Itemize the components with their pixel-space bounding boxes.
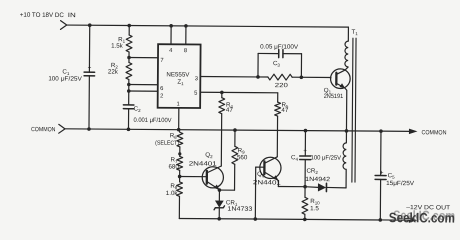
svg-text:3: 3 (195, 76, 198, 82)
svg-text:1: 1 (177, 102, 180, 108)
svg-text:NE555V: NE555V (166, 71, 190, 78)
svg-text:2N4401: 2N4401 (253, 179, 282, 186)
resistor R4 47 (219, 92, 234, 114)
svg-text:COMMON: COMMON (31, 126, 56, 133)
pin 3 label (195, 76, 198, 82)
node -12V DC OUT arrow (406, 204, 450, 223)
wire common rail (65, 129, 410, 132)
resistor R5 47 (275, 93, 289, 116)
node junction dot -12V/R10 (303, 218, 307, 222)
wire C3 right leg (283, 54, 302, 78)
node junction dot common/T1/Q1 emitter (345, 129, 349, 133)
diode CR2 1N4942 (305, 168, 331, 192)
svg-text:100: 100 (48, 75, 59, 82)
diode CR1 1N4733 zener (214, 190, 253, 219)
wire -12V rail (179, 218, 409, 220)
node junction dot common/pin1 (177, 128, 181, 132)
svg-text:SeekIC.com: SeekIC.com (389, 210, 455, 225)
node junction dot +V/pin4 (169, 24, 173, 28)
svg-text:1N4942: 1N4942 (305, 176, 331, 183)
wire node to CR2 anode (305, 186, 318, 189)
transistor Q2 2N4401 (189, 152, 224, 190)
wire R8 to -12V rail (178, 196, 180, 218)
svg-text:7: 7 (160, 58, 163, 64)
svg-text:COMMON: COMMON (421, 129, 446, 136)
node junction dot common/C1 (87, 127, 91, 131)
pin 6 label (160, 86, 163, 92)
svg-text:100 μF/25V: 100 μF/25V (311, 154, 342, 161)
wire T1 secondary top to common (345, 131, 347, 143)
node junction dot -12V/C5 (379, 218, 383, 222)
svg-text:5: 5 (194, 91, 197, 97)
wire Q3 base column (254, 167, 256, 219)
node +10 TO 18V DC IN input terminal (20, 12, 77, 30)
wire pin 1 to common (178, 108, 180, 130)
transistor Q3 2N4401 (253, 157, 282, 187)
svg-text:μF/25V: μF/25V (61, 76, 83, 83)
capacitor C1 100uF/25V (48, 64, 94, 83)
node junction dot common/C5 (379, 129, 383, 133)
wire Q3 emitter to output node (278, 186, 305, 188)
wire Q2 base wire (180, 175, 207, 177)
wire pin 5 control line (200, 91, 277, 94)
svg-text:+10 TO 18V DC: +10 TO 18V DC (20, 12, 64, 19)
pin 8 label (184, 48, 187, 54)
inductor T1 primary winding (345, 41, 348, 67)
node junction dot +V/R1 (127, 24, 131, 28)
node junction dot pin3/C3 left (256, 75, 260, 79)
resistor R3 220 (268, 74, 292, 89)
node junction dot output node (303, 185, 307, 189)
capacitor C3 0.05uF/100V (260, 43, 299, 67)
node junction dot R7/R8 Q2 base tap (178, 170, 182, 182)
node junction dot Q2 emitter (218, 188, 222, 192)
wire +V rail drop to T1 primary (347, 27, 349, 41)
wire junction to pin 2 (127, 89, 158, 93)
wire pin 8 to +V rail (185, 26, 187, 44)
node junction dot -12V/Q3 base (254, 217, 258, 221)
node junction dot pin5/R4 (220, 91, 224, 95)
node junction dot R6/R7 (178, 147, 181, 157)
wire Q2 emitter to R9 bottom (219, 164, 234, 190)
transistor Q1 2N5191 (323, 67, 350, 131)
wire CR2 cathode to T1 secondary (326, 169, 346, 188)
svg-text:0.05 μF/100V: 0.05 μF/100V (260, 43, 299, 50)
wire C3 left leg (258, 53, 279, 77)
wire C5 top lead (380, 131, 382, 175)
pin 5 label (194, 91, 197, 97)
svg-text:6: 6 (160, 86, 163, 92)
svg-text:1.5k: 1.5k (111, 43, 124, 50)
text watermark SeekIC.com (389, 208, 455, 226)
svg-text:+: + (88, 64, 92, 71)
transformer T1 core (352, 38, 356, 182)
wire top +V rail (67, 25, 349, 27)
node COMMON right arrow (409, 129, 447, 137)
inductor T1 secondary winding (343, 143, 346, 170)
capacitor C4 100uF/25V (291, 147, 342, 162)
node junction dot +V/C1 (88, 23, 92, 27)
transformer T1 label (351, 29, 358, 36)
wire pin 3 output (200, 76, 330, 79)
node junction dot common/C4 (304, 129, 308, 133)
resistor R8 1.0k (166, 182, 183, 197)
wire R5 to Q3 collector (crosses common) (276, 116, 278, 157)
svg-text:0.001 μF/100V: 0.001 μF/100V (134, 117, 173, 124)
svg-text:(SELECT): (SELECT) (155, 141, 179, 147)
svg-text:+: + (303, 147, 307, 154)
svg-text:47: 47 (226, 107, 233, 114)
pin 1 label (177, 102, 180, 108)
wire Q3 base wire (256, 166, 265, 168)
pin 2 label (160, 94, 163, 100)
wire C1 bottom lead (88, 76, 90, 129)
node junction dot pin3/C3 right (300, 75, 304, 79)
svg-text:560: 560 (237, 154, 248, 161)
wire C4 bottom lead (304, 160, 306, 187)
node junction dot +V/pin8 (184, 24, 188, 28)
wire C1 top lead (88, 25, 90, 72)
wire R4 to Q2 collector (crosses common) (220, 114, 222, 166)
svg-text:15μF/25V: 15μF/25V (386, 180, 415, 187)
wire C4 top lead (304, 131, 306, 156)
svg-text:8: 8 (184, 48, 187, 54)
resistor R7 680 (168, 156, 182, 170)
node junction dot -12V/CR1 (217, 217, 221, 221)
svg-text:1N4733: 1N4733 (227, 206, 253, 213)
svg-text:+: + (380, 170, 384, 176)
capacitor C5 15uF/25V (375, 170, 415, 187)
resistor R6 SELECT (155, 129, 183, 146)
wire R1-R2 junction to pin 7 (127, 52, 158, 63)
resistor R1 1.5k (111, 25, 132, 52)
pin 4 label (169, 48, 173, 54)
svg-text:2N4401: 2N4401 (189, 160, 218, 167)
resistor R10 1.5 (302, 187, 320, 220)
pin 7 label (160, 58, 163, 64)
wire R2 bottom to pin 6 (127, 79, 158, 105)
svg-text:220: 220 (275, 82, 289, 89)
resistor R2 22k (108, 62, 132, 79)
node COMMON left terminal (31, 124, 65, 133)
svg-text:2: 2 (160, 94, 163, 100)
resistor R9 560 (232, 128, 248, 164)
svg-text:IN: IN (68, 12, 77, 19)
svg-text:1.5: 1.5 (310, 205, 319, 212)
svg-text:22k: 22k (108, 69, 119, 76)
capacitor C2 0.001uF/100V (123, 105, 172, 124)
svg-text:2N5191: 2N5191 (324, 93, 344, 100)
svg-text:1.0k: 1.0k (166, 190, 179, 197)
svg-text:47: 47 (281, 107, 288, 114)
node junction dot common/C2 (127, 127, 131, 131)
wire pin 4 to +V rail (170, 26, 172, 44)
wire C2 bottom lead (127, 109, 129, 130)
op-amp U1 timer NE555V Z1 body (158, 44, 201, 108)
wire Q1 base from R3/C3 (330, 77, 332, 78)
svg-text:680: 680 (168, 163, 179, 170)
wire C5 bottom lead (379, 179, 381, 219)
